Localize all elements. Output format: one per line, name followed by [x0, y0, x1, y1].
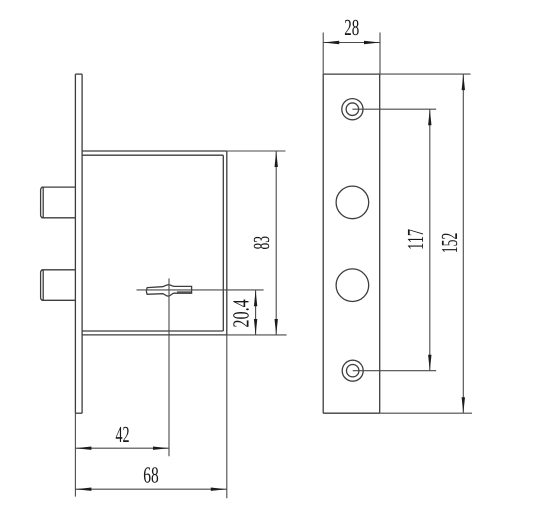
screw hole bottom: [342, 360, 363, 381]
dimension 42 arrow left: [75, 447, 91, 450]
witness line top right of body: [227, 150, 286, 152]
dimension 20.4 arrow down: [254, 319, 257, 335]
dimension 83 line: [275, 151, 277, 335]
dimension 42 line: [75, 447, 169, 449]
big hole bottom: [336, 269, 369, 302]
dimension 68 arrow right: [211, 488, 227, 491]
dimension 28 arrow left: [323, 41, 339, 44]
dimension 152 arrow up: [462, 74, 465, 90]
dimension 152 line: [462, 74, 464, 413]
svg-text:83: 83: [249, 236, 274, 250]
dimension 117 arrow down: [428, 355, 431, 371]
leader line bottom screw hole: [353, 370, 437, 372]
leader line top screw hole: [352, 108, 436, 110]
faceplate side view: [75, 74, 82, 413]
dimension 117 line: [429, 109, 431, 371]
svg-text:28: 28: [344, 15, 359, 40]
dimension 42 arrow right: [153, 447, 169, 450]
dimension 28 arrow right: [364, 41, 380, 44]
svg-text:152: 152: [437, 233, 462, 254]
big hole top: [336, 186, 369, 219]
witness line below body right: [226, 335, 228, 498]
dimension 68 line: [75, 488, 226, 490]
witness line bottom right of plate: [380, 412, 472, 414]
witness line above plate right: [379, 33, 381, 75]
dimension 20.4 arrow up: [254, 290, 257, 306]
faceplate front view outline: [323, 74, 380, 413]
dimension 83 arrow up: [275, 151, 278, 167]
witness line top right of plate: [380, 73, 471, 75]
screw hole top: [342, 99, 363, 120]
witness line above plate left: [322, 33, 324, 75]
spindle follower: [146, 285, 191, 296]
dimension 68 arrow left: [75, 488, 91, 491]
bolt 2 (bottom latch): [41, 270, 76, 301]
svg-text:20.4: 20.4: [228, 299, 253, 328]
vertical centerline: [168, 278, 170, 456]
svg-text:117: 117: [403, 229, 428, 250]
dimension 28 line: [323, 42, 380, 44]
dimension 20.4 line: [255, 290, 257, 335]
horizontal centerline: [137, 289, 264, 291]
svg-text:68: 68: [143, 462, 159, 487]
dimension 152 arrow down: [462, 397, 465, 413]
bolt 1 (top latch): [41, 187, 76, 218]
lock body side view: [82, 151, 227, 335]
witness line below plate: [74, 413, 76, 496]
witness line bottom right of body: [227, 334, 287, 336]
dimension 83 arrow down: [275, 319, 278, 335]
dimension 117 arrow up: [428, 109, 431, 125]
svg-text:42: 42: [116, 422, 130, 447]
